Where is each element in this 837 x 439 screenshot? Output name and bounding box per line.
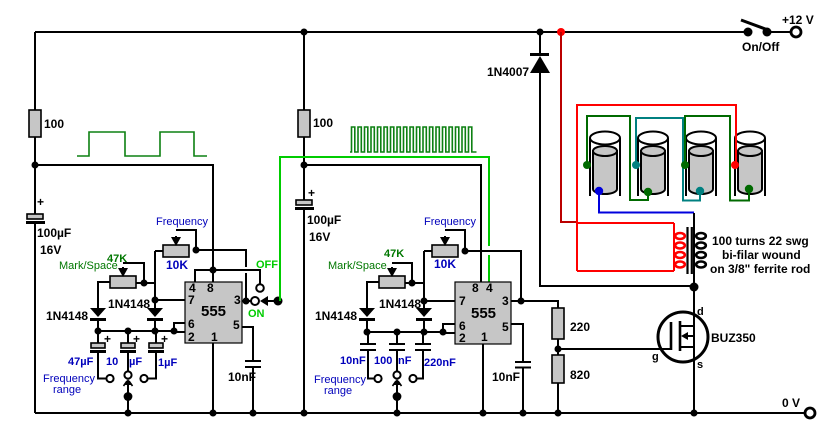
- svg-text:1N4148: 1N4148: [379, 297, 421, 311]
- svg-text:220: 220: [570, 320, 590, 334]
- wire R2 to node: [303, 137, 305, 200]
- svg-text:4: 4: [486, 281, 493, 295]
- node t4 inner green: [745, 185, 753, 193]
- waveform burst high frequency: [350, 127, 477, 152]
- capacitor C7 10nF: [340, 332, 376, 379]
- wire timing cap rail: [98, 330, 174, 332]
- node block2 0V: [301, 410, 308, 417]
- wire pin3 output: [242, 300, 251, 302]
- potentiometer VR1 10K Frequency: [155, 216, 208, 272]
- wire pin1 to 0V: [212, 343, 214, 413]
- svg-text:47µF: 47µF: [68, 356, 94, 368]
- svg-text:Frequency: Frequency: [424, 216, 476, 228]
- svg-text:range: range: [53, 384, 81, 396]
- capacitor C6 100uF 16V: [295, 186, 341, 244]
- wire red winding top edge: [576, 222, 674, 224]
- node cap rail D3: [364, 329, 371, 336]
- wire pin1-2 to 0V: [482, 344, 484, 413]
- node pin1 0V: [210, 410, 217, 417]
- wire red transducer return: [577, 105, 736, 271]
- svg-text:6: 6: [188, 317, 195, 331]
- svg-text:1N4148: 1N4148: [315, 309, 357, 323]
- node cap rail D1: [95, 328, 102, 335]
- wire green t1.can to t2.inner: [587, 116, 648, 200]
- wire pin4/OFF header: [195, 270, 260, 284]
- wire bottom 0V rail: [35, 412, 804, 414]
- IC U1 555: [185, 281, 242, 344]
- svg-text:on 3/8" ferrite rod: on 3/8" ferrite rod: [710, 262, 810, 276]
- node cap rail C2: [125, 328, 132, 335]
- diode D1 1N4148: [46, 308, 106, 331]
- svg-text:1: 1: [481, 330, 488, 344]
- resistor R4 820: [552, 355, 590, 417]
- svg-text:16V: 16V: [309, 230, 330, 244]
- node pins 6/2 - 2: [440, 329, 447, 336]
- svg-text:+: +: [308, 186, 315, 200]
- transistor Q1 BUZ350: [652, 287, 756, 417]
- svg-text:2: 2: [188, 330, 195, 344]
- wire left column from rail to R1: [34, 32, 36, 110]
- wire gate: [558, 348, 671, 350]
- node block2 rail: [301, 29, 308, 36]
- svg-text:555: 555: [471, 305, 496, 322]
- ferrite core: [688, 227, 692, 274]
- transducer T4: [735, 132, 765, 197]
- resistor R1 100: [29, 110, 64, 137]
- node t3 inner teal: [696, 187, 704, 195]
- svg-text:1N4148: 1N4148: [46, 309, 88, 323]
- svg-text:7: 7: [459, 294, 466, 308]
- wire teal t2.can to t3.inner: [636, 118, 700, 201]
- svg-text:2: 2: [459, 331, 466, 345]
- wire left column cap to bottom rail: [34, 224, 36, 413]
- wire red primary feed from rail: [561, 32, 577, 222]
- svg-text:16V: 16V: [40, 243, 61, 257]
- node drain: [690, 283, 699, 292]
- capacitor C5 10nF: [228, 361, 261, 417]
- svg-text:g: g: [652, 351, 659, 363]
- svg-text:3: 3: [234, 293, 241, 307]
- waveform square wave low frequency: [77, 132, 207, 156]
- terminal 0 V: [782, 396, 815, 418]
- svg-text:Mark/Space: Mark/Space: [328, 260, 387, 272]
- node block1 vcc: [32, 162, 39, 169]
- wire R1 to node: [34, 137, 36, 214]
- svg-text:100µF: 100µF: [37, 226, 71, 240]
- svg-text:10nF: 10nF: [492, 370, 520, 384]
- capacitor C3 10uF: [106, 331, 142, 371]
- node pin7-2: [421, 298, 428, 305]
- wire red winding bottom edge: [577, 270, 674, 272]
- wire blue t1.inner to secondary: [599, 191, 694, 213]
- node cap rail C8: [394, 329, 401, 336]
- svg-text:555: 555: [201, 303, 226, 320]
- node t1 inner blue: [595, 187, 603, 195]
- diode D4 1N4148: [379, 297, 432, 332]
- node block1 vcc split: [210, 267, 217, 274]
- wire timing cap rail 2: [367, 331, 443, 333]
- svg-text:bi-filar wound: bi-filar wound: [722, 248, 801, 262]
- potentiometer VR2 47K Mark/Space: [59, 253, 155, 308]
- wire 10K right lead to pin3 node: [196, 250, 246, 267]
- wire green gate net: [280, 157, 489, 301]
- wire block2 vcc feed to pin8: [304, 165, 481, 283]
- wire block1 vcc feed: [35, 165, 213, 282]
- wire pin5-2 to C10: [511, 324, 523, 362]
- svg-text:ON: ON: [248, 308, 265, 320]
- capacitor C8 100nF: [374, 332, 412, 371]
- node pin1-2 0V: [480, 410, 487, 417]
- wire selector wiper 2 to 0V: [393, 379, 402, 417]
- switch contact OFF: [256, 259, 278, 292]
- node pin7: [152, 297, 159, 304]
- capacitor C10 10nF: [492, 362, 531, 417]
- node 1N4007 rail: [537, 29, 544, 36]
- wire block2 cap to 0V: [303, 210, 305, 413]
- svg-text:220nF: 220nF: [424, 357, 456, 369]
- svg-text:1N4148: 1N4148: [108, 297, 150, 311]
- svg-text:OFF: OFF: [256, 259, 278, 271]
- diode D3 1N4148: [315, 308, 375, 332]
- wire 1N4007 to drain node: [540, 73, 694, 286]
- potentiometer VR3 10K Frequency: [424, 216, 476, 271]
- selector SW3 frequency range contacts: [314, 371, 417, 397]
- svg-text:100µF: 100µF: [307, 213, 341, 227]
- node pins 6/2: [171, 328, 178, 335]
- wire vertical 10K-left / MS-right / pin7 / D2 column: [154, 251, 156, 308]
- node t3 can: [681, 161, 689, 169]
- wire top +12V rail: [35, 31, 748, 33]
- potentiometer VR4 47K Mark/Space: [328, 248, 424, 308]
- switch S1 On/Off: [741, 20, 780, 54]
- capacitor C9 220nF: [415, 332, 456, 379]
- node t2 inner green: [644, 188, 652, 196]
- wire pin5 to C5: [242, 327, 253, 361]
- svg-text:8: 8: [472, 281, 479, 295]
- inductor L2 secondary winding black: [694, 213, 706, 286]
- capacitor C2 47uF: [68, 331, 111, 379]
- wire selector wiper to 0V: [124, 379, 133, 417]
- svg-text:10: 10: [106, 356, 118, 368]
- wire top rail right of switch: [767, 31, 791, 33]
- resistor R2 100: [298, 110, 333, 137]
- switch contact ON: [248, 297, 265, 320]
- svg-text:On/Off: On/Off: [742, 40, 780, 54]
- svg-text:100 turns 22 swg: 100 turns 22 swg: [712, 234, 809, 248]
- svg-text:0 V: 0 V: [782, 396, 800, 410]
- wire vertical 10K-2-left / MS-2-right / pin7 / D4 column: [423, 251, 425, 308]
- transducer T3: [686, 132, 716, 197]
- svg-text:Mark/Space: Mark/Space: [59, 260, 118, 272]
- node t2 can: [632, 161, 640, 169]
- wire pin3-2 output to 220: [511, 301, 558, 308]
- wire green gate net lower: [488, 255, 490, 283]
- svg-text:820: 820: [570, 368, 590, 382]
- svg-text:5: 5: [233, 318, 240, 332]
- diode D5 1N4007: [487, 32, 550, 79]
- svg-text:s: s: [697, 359, 703, 371]
- svg-text:d: d: [697, 306, 704, 318]
- capacitor C4 1uF: [147, 331, 177, 379]
- svg-text:10K: 10K: [166, 258, 188, 272]
- node gate divider: [555, 346, 562, 353]
- svg-text:47K: 47K: [384, 248, 404, 260]
- svg-text:5: 5: [502, 320, 509, 334]
- svg-text:3: 3: [502, 294, 509, 308]
- node block2 vcc: [301, 162, 308, 169]
- node t4 can red: [731, 161, 739, 169]
- svg-text:100: 100: [44, 117, 64, 131]
- wire pin7-2 stub: [424, 300, 455, 302]
- transducer T2: [638, 132, 668, 197]
- node red rail tap: [557, 28, 565, 36]
- inductor L1 primary winding red: [674, 223, 685, 271]
- wire pins 6/2 tie 2: [443, 324, 455, 333]
- transducer T1: [590, 132, 620, 197]
- diode D2 1N4148: [108, 297, 163, 331]
- svg-text:7: 7: [188, 293, 195, 307]
- node pin3: [243, 298, 250, 305]
- svg-text:100: 100: [374, 355, 392, 367]
- svg-text:+: +: [37, 195, 44, 209]
- wire pin7 stub: [155, 299, 185, 301]
- IC U2 555: [455, 281, 511, 345]
- wire 10K-2 right lead to pin3 node: [465, 251, 521, 301]
- svg-text:Frequency: Frequency: [156, 216, 208, 228]
- svg-text:nF: nF: [398, 355, 412, 367]
- terminal +12 V: [782, 13, 814, 37]
- svg-text:8: 8: [207, 281, 214, 295]
- node pin3-2: [518, 298, 525, 305]
- svg-text:100: 100: [313, 116, 333, 130]
- wire pins 6/2 tie: [174, 323, 185, 332]
- wire selector arm to green net: [260, 296, 283, 306]
- node t1 can: [583, 161, 591, 169]
- svg-text:1N4007: 1N4007: [487, 65, 529, 79]
- node cap rail D2: [152, 328, 159, 335]
- svg-text:BUZ350: BUZ350: [711, 331, 756, 345]
- wire green t3.can to t4.inner: [685, 116, 749, 201]
- svg-text:10K: 10K: [434, 257, 456, 271]
- capacitor C1 100uF 16V: [26, 195, 71, 257]
- node cap rail D4: [421, 329, 428, 336]
- svg-text:+12 V: +12 V: [782, 13, 814, 27]
- svg-text:µF: µF: [129, 356, 142, 368]
- svg-text:10nF: 10nF: [340, 355, 366, 367]
- wire block2 rail drop: [303, 32, 305, 110]
- svg-text:range: range: [324, 385, 352, 397]
- svg-text:10nF: 10nF: [228, 370, 256, 384]
- svg-text:1: 1: [211, 330, 218, 344]
- resistor R3 220: [552, 308, 590, 355]
- label coil: [710, 234, 810, 276]
- selector SW2 frequency range contacts: [43, 371, 148, 396]
- svg-text:1µF: 1µF: [158, 357, 177, 369]
